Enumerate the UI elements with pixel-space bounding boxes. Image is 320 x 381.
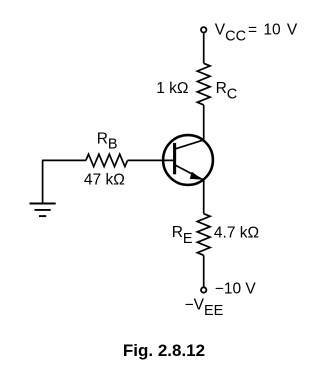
wire base	[43, 159, 86, 161]
svg-text:VCC: VCC	[215, 22, 246, 45]
wire	[203, 33, 205, 63]
svg-text:RE: RE	[172, 224, 193, 247]
transistor Q1	[163, 135, 213, 185]
resistor RE	[197, 214, 210, 256]
svg-text:4.7 kΩ: 4.7 kΩ	[214, 224, 259, 241]
wire emitter	[203, 181, 205, 214]
svg-text:RC: RC	[216, 80, 238, 103]
svg-text:RB: RB	[97, 130, 118, 152]
svg-text:= 10 V: = 10 V	[248, 22, 298, 39]
wire to ground	[42, 160, 44, 204]
svg-text:−10 V: −10 V	[215, 280, 257, 297]
svg-text:47 kΩ: 47 kΩ	[84, 172, 125, 189]
node -VEE terminal	[201, 287, 206, 292]
svg-text:1 kΩ: 1 kΩ	[156, 80, 188, 97]
wire	[203, 105, 205, 140]
ground	[30, 204, 56, 217]
node VCC terminal	[201, 27, 206, 32]
resistor RC	[197, 63, 210, 105]
svg-text:Fig. 2.8.12: Fig. 2.8.12	[123, 341, 205, 360]
svg-text:−VEE: −VEE	[185, 297, 224, 320]
resistor RB	[86, 154, 128, 166]
wire	[203, 255, 205, 286]
